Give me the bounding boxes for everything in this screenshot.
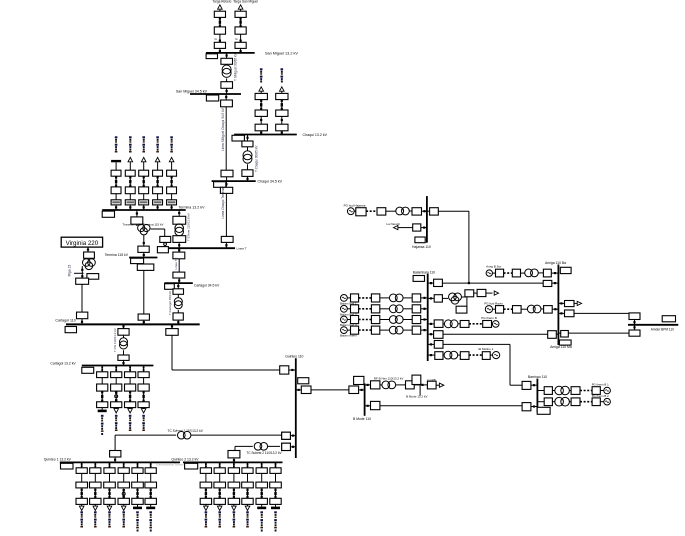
svg-text::: : (125, 380, 126, 383)
svg-text:T SMiguel 30/65 kV: T SMiguel 30/65 kV (234, 52, 238, 81)
svg-text:T ETerm 115/13.8 kV: T ETerm 115/13.8 kV (187, 213, 191, 241)
svg-text::: : (138, 380, 139, 383)
svg-text:Cartagol 110: Cartagol 110 (55, 319, 75, 323)
svg-text::: : (228, 476, 229, 479)
svg-text:Linea Chaqui Termina: Linea Chaqui Termina (221, 187, 225, 218)
svg-text:San Miguel 34.5 kV: San Miguel 34.5 kV (176, 90, 208, 94)
svg-text::: : (118, 476, 119, 479)
svg-text::: : (90, 476, 91, 479)
svg-text:Transformador Termina 115 kV: Transformador Termina 115 kV (123, 222, 164, 226)
svg-text:G: G (215, 37, 218, 41)
svg-text::: : (97, 380, 98, 383)
svg-text::: : (145, 476, 146, 479)
svg-text:PG therm B: PG therm B (481, 316, 497, 320)
svg-text:Quinteo 1 13.2 kV: Quinteo 1 13.2 kV (44, 457, 72, 461)
svg-text:B Mode 13.2 kV: B Mode 13.2 kV (406, 394, 427, 398)
svg-text:Balambala 110: Balambala 110 (413, 270, 435, 274)
svg-text:Quinteo 2 13.2 kV: Quinteo 2 13.2 kV (171, 457, 199, 461)
svg-text:B Mode 110: B Mode 110 (353, 417, 371, 421)
svg-text:G: G (235, 37, 238, 41)
svg-text::: : (214, 476, 215, 479)
svg-text:Amiga 110 Ba: Amiga 110 Ba (545, 261, 566, 265)
svg-text:xx kWh: xx kWh (427, 378, 437, 382)
svg-text:PG hyd Hajansa: PG hyd Hajansa (344, 204, 366, 208)
svg-text:Amig B Sur: Amig B Sur (486, 264, 501, 268)
svg-text:Chaqui 34.5 kV: Chaqui 34.5 kV (258, 179, 283, 183)
svg-text:Targa San Miguel: Targa San Miguel (233, 0, 258, 4)
svg-text::: : (76, 476, 77, 479)
svg-text:RF B Nev 110/13.2 kV: RF B Nev 110/13.2 kV (374, 377, 404, 381)
svg-text:Barrinao 110: Barrinao 110 (528, 375, 547, 379)
svg-text:Cartagol 13.2 kV: Cartagol 13.2 kV (50, 362, 76, 366)
svg-text:Targa Rebelo: Targa Rebelo (212, 0, 231, 4)
svg-text:San Miguel 13.2 kV: San Miguel 13.2 kV (265, 51, 298, 55)
svg-text:Riga 15: Riga 15 (68, 265, 72, 277)
svg-text:Termina 13.2 kV: Termina 13.2 kV (179, 205, 206, 209)
svg-text:Linea TC: Linea TC (174, 257, 178, 270)
svg-text::: : (200, 476, 201, 479)
svg-text:Amder BPM 110: Amder BPM 110 (651, 327, 674, 331)
svg-text:Guinteo 110: Guinteo 110 (285, 355, 303, 359)
svg-text::: : (270, 476, 271, 479)
svg-text::: : (111, 380, 112, 383)
svg-text:T CG 110/13.2 kV: T CG 110/13.2 kV (113, 328, 117, 352)
svg-text::: : (104, 476, 105, 479)
svg-text:PG therm B 1: PG therm B 1 (592, 383, 609, 387)
svg-text:T Cartagol 65/110: T Cartagol 65/110 (168, 291, 172, 315)
svg-text:Linea SMiguel Chaqui 34.5 kV: Linea SMiguel Chaqui 34.5 kV (221, 107, 225, 151)
svg-text:TC Subest 2 110/13.2 kV: TC Subest 2 110/13.2 kV (246, 451, 282, 455)
svg-text:T Chaqui 30/65 kV: T Chaqui 30/65 kV (255, 145, 259, 172)
svg-text::: : (242, 476, 243, 479)
svg-text:Virginia 220: Virginia 220 (66, 240, 99, 247)
svg-text:Cartagol 34.5 kV: Cartagol 34.5 kV (194, 283, 220, 287)
svg-text:Linea T: Linea T (237, 247, 247, 251)
svg-text:Hajansa 110: Hajansa 110 (412, 245, 431, 249)
svg-text:PG therm B 2: PG therm B 2 (592, 394, 609, 398)
svg-text::: : (256, 476, 257, 479)
svg-text:Termina 115 kV: Termina 115 kV (105, 253, 129, 257)
svg-text:PG hyd Ravin: PG hyd Ravin (484, 302, 503, 306)
svg-text:Chaqui 13.2 kV: Chaqui 13.2 kV (303, 133, 328, 137)
svg-text::: : (132, 476, 133, 479)
svg-text:El Molino 1: El Molino 1 (479, 347, 494, 351)
